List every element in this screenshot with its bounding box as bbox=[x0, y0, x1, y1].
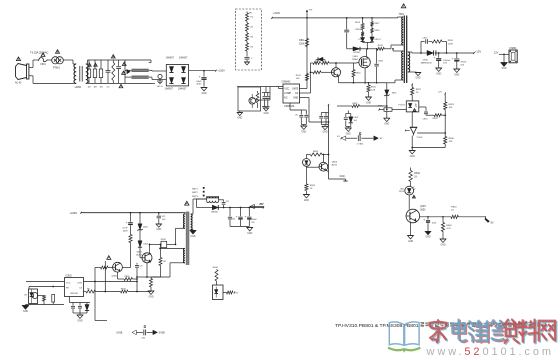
Q804 base wire bbox=[140, 257, 142, 259]
svg-text:R830: R830 bbox=[449, 138, 455, 140]
svg-text:GND: GND bbox=[156, 229, 161, 231]
watermark character xiu bbox=[485, 320, 504, 343]
TL431 U803 bbox=[405, 127, 423, 139]
arrow connector left bbox=[132, 330, 143, 335]
bridge diode D804 bbox=[181, 78, 185, 84]
T802 secondary winding bbox=[191, 214, 192, 230]
divider resistor R808 bbox=[244, 31, 249, 41]
R817 labels bbox=[375, 23, 382, 41]
T802 primary winding bbox=[184, 213, 186, 229]
gate resistor R813 bbox=[322, 62, 357, 65]
svg-text:Q803: Q803 bbox=[332, 162, 338, 164]
svg-text:R819: R819 bbox=[378, 45, 384, 47]
secondary bottom wire bbox=[191, 230, 193, 231]
svg-text:D811: D811 bbox=[143, 244, 149, 246]
startup resistor R831 bbox=[129, 235, 132, 268]
watermark character wang bbox=[539, 321, 557, 342]
svg-text:1M: 1M bbox=[87, 87, 90, 89]
primary lower pin wire bbox=[391, 45, 398, 49]
output gnd bus bbox=[230, 225, 249, 227]
svg-text:GND: GND bbox=[201, 93, 206, 95]
CY arrow left bbox=[341, 136, 357, 141]
svg-text:Z802: Z802 bbox=[143, 226, 149, 228]
label 1N4007 c bbox=[165, 87, 174, 90]
svg-text:CR6842S: CR6842S bbox=[284, 105, 295, 108]
ground secondary bbox=[415, 73, 421, 80]
svg-text:C810: C810 bbox=[423, 38, 429, 40]
svg-text:C813: C813 bbox=[423, 119, 429, 121]
Q803 emitter wire bbox=[326, 170, 329, 171]
zener Z801 bbox=[384, 83, 397, 111]
svg-text:GND: GND bbox=[410, 156, 415, 158]
photo LED D809 bbox=[299, 159, 311, 172]
svg-text:GND: GND bbox=[440, 244, 445, 246]
svg-text:R842: R842 bbox=[414, 173, 420, 175]
optocoupler U806 bbox=[210, 285, 223, 303]
svg-text:400V: 400V bbox=[196, 83, 202, 85]
connector capacitor C820 bbox=[141, 326, 146, 340]
U804 drive resistor R837 bbox=[84, 288, 152, 293]
ground under R843 bbox=[440, 239, 446, 246]
startup resistor R811 bbox=[305, 39, 308, 47]
Q805 base resistor R838 bbox=[95, 266, 113, 269]
svg-text:10K: 10K bbox=[449, 141, 453, 143]
svg-text:R840: R840 bbox=[213, 267, 219, 269]
ground under U804 caps bbox=[77, 313, 83, 322]
startup line from HV rail bbox=[306, 10, 313, 89]
pullup resistor R842 bbox=[409, 168, 421, 187]
ground under Q807 bbox=[408, 236, 414, 243]
svg-text:COMP: COMP bbox=[284, 93, 291, 95]
ground under C821 bbox=[425, 232, 431, 239]
C805 labels rotated bbox=[338, 34, 344, 41]
C807 labels bbox=[354, 117, 360, 122]
feedback resistor R828 bbox=[426, 114, 445, 121]
svg-text:FR107: FR107 bbox=[375, 39, 382, 41]
feedback bottom wire bbox=[411, 136, 445, 151]
fb resistor R836 bbox=[29, 286, 65, 305]
svg-text:+: + bbox=[245, 214, 247, 218]
cs filter resistor R822 bbox=[337, 103, 388, 108]
warning triangle under opto bbox=[413, 109, 416, 112]
svg-text:GND: GND bbox=[23, 311, 28, 313]
damping resistor R819 bbox=[377, 45, 391, 50]
warning triangle mid b bbox=[122, 71, 126, 74]
decoupling caps C808 C809 bbox=[319, 113, 328, 125]
bias resistor R824 bbox=[305, 167, 316, 194]
ground under C811 bbox=[436, 68, 442, 75]
ground under C808 bbox=[322, 125, 328, 134]
svg-text:400V: 400V bbox=[123, 231, 128, 233]
5V rail bbox=[229, 206, 264, 208]
ground under TL431 bbox=[409, 151, 415, 158]
discharge resistor R804 bbox=[99, 60, 102, 89]
svg-text:+: + bbox=[423, 218, 425, 222]
series resistor R844 bbox=[451, 207, 486, 219]
X-capacitor CX801 bbox=[106, 60, 111, 89]
standby transistor Q806 bbox=[113, 262, 123, 272]
svg-text:R829: R829 bbox=[449, 104, 455, 106]
snubber bottom tie bbox=[363, 42, 372, 49]
svg-text:+: + bbox=[126, 220, 128, 224]
svg-text:5V: 5V bbox=[491, 221, 494, 224]
ground under C812 bbox=[454, 69, 460, 76]
svg-text:Q807: Q807 bbox=[420, 206, 426, 208]
U804 label top bbox=[66, 275, 73, 277]
title text cjk smudge bbox=[421, 322, 547, 328]
clamp diode D811 bbox=[138, 241, 149, 258]
wire plug to fuse bbox=[33, 60, 39, 68]
arrow connector right bbox=[147, 330, 166, 335]
X-capacitor CX802 bbox=[116, 60, 121, 83]
svg-text:12V: 12V bbox=[494, 51, 499, 54]
Q801 labels bbox=[352, 56, 359, 61]
secondary bottom pin wire bbox=[408, 71, 418, 74]
ground under zener bbox=[384, 112, 390, 126]
svg-text:GND: GND bbox=[322, 132, 327, 134]
12V wire to connector bbox=[494, 51, 509, 55]
svg-text:16V: 16V bbox=[443, 63, 447, 65]
svg-text:R826: R826 bbox=[448, 40, 454, 42]
emitter resistor R839 bbox=[124, 276, 137, 281]
svg-text:C806: C806 bbox=[378, 61, 384, 63]
watermark character zi bbox=[503, 320, 520, 344]
gate pin labels bbox=[296, 75, 302, 80]
svg-text:MB71: MB71 bbox=[192, 188, 198, 190]
svg-text:10K: 10K bbox=[296, 78, 300, 80]
watermark character wei bbox=[469, 321, 488, 343]
out cap C817 bbox=[228, 208, 236, 227]
svg-text:CY801: CY801 bbox=[357, 143, 364, 145]
secondary snubber riser bbox=[420, 42, 422, 54]
Q807 labels bbox=[420, 206, 426, 211]
T801 core bbox=[404, 16, 406, 84]
svg-text:R832: R832 bbox=[161, 239, 167, 241]
warning triangle over T801 bbox=[401, 4, 406, 8]
Q802 emitter wire bbox=[338, 76, 340, 83]
svg-text:GND: GND bbox=[293, 97, 298, 99]
wire filter bottom rail bbox=[86, 82, 152, 84]
U806 output resistor R841 bbox=[223, 291, 239, 294]
CY arrow right bbox=[361, 136, 383, 141]
startup box outline bbox=[238, 87, 261, 111]
svg-text:LED: LED bbox=[400, 188, 405, 190]
wire U801 pin gate riser bbox=[300, 63, 312, 93]
svg-text:+310V: +310V bbox=[70, 211, 78, 215]
svg-text:330uF: 330uF bbox=[251, 219, 257, 221]
svg-text:R827: R827 bbox=[416, 89, 422, 91]
Q804 labels bbox=[136, 252, 143, 257]
ground under sense resistor bbox=[366, 97, 372, 104]
watermark character jia bbox=[430, 320, 448, 343]
gate entry wire bbox=[357, 61, 359, 64]
svg-text:+310V: +310V bbox=[273, 12, 281, 15]
ground in dashed box bbox=[244, 60, 249, 65]
wire choke2 top left bbox=[125, 69, 132, 71]
primary winding2 top pin wire bbox=[392, 48, 398, 51]
discharge resistor R802 bbox=[87, 60, 90, 89]
discharge resistor R803 bbox=[93, 60, 96, 89]
svg-text:GND: GND bbox=[384, 123, 389, 125]
B+ rail bbox=[81, 212, 185, 214]
dashed box bbox=[236, 9, 262, 70]
feedback resistor R823 bbox=[310, 151, 328, 156]
svg-text:RS1M: RS1M bbox=[354, 52, 360, 54]
svg-text:VCC: VCC bbox=[284, 88, 289, 90]
svg-text:Q805: Q805 bbox=[112, 276, 118, 278]
filter cap C816 bbox=[218, 200, 230, 209]
svg-text:GND: GND bbox=[340, 176, 345, 178]
wire fuse to varistor bbox=[48, 59, 52, 61]
U801 vcc caps bbox=[290, 103, 308, 125]
+5VSB label bbox=[259, 203, 264, 206]
divider resistor R806 bbox=[244, 13, 249, 21]
U801 part number bottom bbox=[284, 105, 295, 108]
divider labels right bbox=[251, 17, 254, 49]
svg-text:4.7K: 4.7K bbox=[446, 228, 451, 230]
svg-text:R839: R839 bbox=[125, 276, 131, 278]
svg-text:A5V: A5V bbox=[260, 203, 265, 206]
svg-text:R824: R824 bbox=[310, 185, 316, 187]
rectifier diode D812 bbox=[197, 205, 219, 213]
svg-text:+: + bbox=[236, 214, 238, 218]
lower divider resistor R830 bbox=[444, 133, 455, 148]
divider capacitor C802 bbox=[245, 51, 254, 60]
svg-text:IC802: IC802 bbox=[66, 275, 73, 277]
HV rail top bbox=[271, 17, 397, 19]
opto pullup resistor R840 bbox=[213, 267, 219, 285]
svg-text:CN801: CN801 bbox=[509, 48, 517, 50]
warning triangle below CX802 bbox=[119, 84, 123, 87]
snubber diode D807 bbox=[370, 37, 374, 42]
connector CN801 bbox=[509, 48, 517, 63]
svg-text:R844: R844 bbox=[451, 207, 457, 209]
svg-text:GND: GND bbox=[77, 320, 82, 322]
pulldown resistor R843 bbox=[441, 217, 452, 239]
wire U801 pin1 bbox=[279, 87, 284, 89]
aux bottom wire bbox=[151, 263, 185, 277]
drive resistor R832 bbox=[150, 239, 167, 247]
svg-text:GND: GND bbox=[148, 296, 153, 298]
D810 labels bbox=[421, 59, 433, 64]
svg-text:+12V: +12V bbox=[475, 49, 482, 53]
wire opto to U804 pin1 bbox=[26, 282, 65, 290]
output choke L801 bbox=[207, 196, 219, 202]
warning triangle LED bbox=[412, 195, 415, 198]
U801 pin labels bbox=[284, 87, 298, 99]
svg-text:VCC: VCC bbox=[66, 282, 71, 284]
svg-text:1M: 1M bbox=[99, 87, 102, 89]
svg-text:GND: GND bbox=[366, 102, 371, 104]
opto bias resistor R835 bbox=[38, 296, 46, 305]
svg-text:OB2269: OB2269 bbox=[70, 293, 79, 295]
U804 pin text bbox=[66, 282, 83, 295]
wire plug bottom rail bbox=[33, 76, 76, 84]
ground under startup caps bbox=[263, 107, 269, 115]
drain node wire bbox=[347, 48, 353, 50]
bridge output wire bbox=[189, 70, 217, 72]
Q802 collector wire bbox=[335, 63, 337, 68]
snubber diode D806 bbox=[361, 38, 365, 43]
U804 right pin1 wire bbox=[84, 268, 138, 321]
R811 labels bbox=[299, 40, 305, 45]
fuse F801 bbox=[39, 58, 48, 66]
wire earth stub bbox=[155, 82, 160, 84]
T801 label bbox=[399, 13, 405, 16]
bias line down bbox=[104, 261, 106, 292]
ground under R834 bbox=[148, 291, 154, 298]
ground under output caps bbox=[247, 226, 253, 234]
svg-text:MB72: MB72 bbox=[192, 192, 198, 194]
watermark book icon bbox=[388, 322, 420, 351]
startup box vertical label bbox=[241, 95, 243, 104]
wire rail jog right bottom bbox=[152, 82, 155, 84]
svg-text:R817: R817 bbox=[375, 23, 381, 25]
ground under R824 bbox=[303, 195, 309, 202]
+12V label bbox=[475, 49, 482, 53]
svg-text:TL431: TL431 bbox=[416, 137, 423, 139]
output capacitor C811 bbox=[434, 53, 452, 68]
opto transistor side wire bbox=[419, 106, 426, 108]
svg-text:R820: R820 bbox=[356, 73, 362, 75]
standby gnd bus bbox=[26, 304, 65, 306]
svg-text:T3.15A 250VAC: T3.15A 250VAC bbox=[30, 51, 49, 55]
PWM controller U801 box bbox=[283, 84, 300, 103]
svg-text:GND: GND bbox=[237, 117, 242, 119]
svg-text:MB73: MB73 bbox=[192, 196, 198, 198]
choke right drop bbox=[219, 196, 220, 207]
snubber column C805 bbox=[344, 18, 349, 49]
Q803 base wire bbox=[306, 165, 319, 168]
svg-text:GND: GND bbox=[454, 74, 459, 76]
gate bleed resistor R820 bbox=[352, 63, 361, 83]
watermark character liao bbox=[519, 320, 538, 344]
svg-text:Q804: Q804 bbox=[136, 252, 142, 254]
delay capacitor C821 bbox=[423, 217, 437, 232]
svg-text:GND: GND bbox=[190, 236, 195, 238]
bridge diode D801 bbox=[169, 67, 173, 73]
snubber capacitor C810 bbox=[421, 38, 432, 44]
watermark character dian bbox=[452, 320, 467, 343]
Q804 emitter wire bbox=[146, 263, 148, 278]
svg-text:R823: R823 bbox=[313, 151, 319, 153]
standby PWM IC U804 box bbox=[65, 278, 84, 297]
svg-text:HV: HV bbox=[249, 12, 253, 14]
svg-text:1M: 1M bbox=[93, 87, 96, 89]
wire choke2 bottom left bbox=[125, 76, 132, 78]
optocoupler U802 bbox=[398, 101, 418, 112]
clamp diode D808 bbox=[353, 47, 367, 55]
damper resistor R845 bbox=[151, 244, 167, 277]
svg-text:R828: R828 bbox=[433, 118, 439, 120]
svg-text:LF801: LF801 bbox=[75, 87, 82, 89]
wire U801 cs pin bbox=[300, 98, 329, 123]
out cap C819 bbox=[245, 208, 258, 227]
svg-text:R837: R837 bbox=[121, 288, 127, 290]
bridge diode D803 bbox=[169, 78, 173, 84]
wire LED top bbox=[306, 155, 310, 159]
svg-text:470uF: 470uF bbox=[460, 62, 467, 64]
warning triangle over R805 bbox=[111, 55, 115, 58]
line mid filter bbox=[124, 60, 126, 83]
wire to gnd pad bbox=[329, 176, 348, 181]
net tick E1 bbox=[337, 136, 342, 139]
svg-text:R816: R816 bbox=[356, 29, 362, 31]
wire choke2 to bridge bottom bbox=[149, 77, 167, 79]
drain wire to transformer bbox=[367, 48, 378, 50]
drive wire bbox=[167, 244, 177, 246]
Q807 emitter wire bbox=[410, 222, 412, 236]
svg-text:AC-G: AC-G bbox=[157, 85, 163, 88]
Q803 labels bbox=[332, 162, 338, 167]
svg-text:100R: 100R bbox=[448, 43, 453, 45]
svg-text:PC817: PC817 bbox=[398, 104, 405, 106]
svg-text:+: + bbox=[434, 56, 436, 60]
title text latin bbox=[335, 323, 419, 328]
svg-text:CS: CS bbox=[295, 93, 299, 95]
R826 labels bbox=[448, 40, 454, 45]
svg-text:R821: R821 bbox=[371, 87, 377, 89]
source bus bbox=[339, 82, 387, 84]
Q806 emitter wire bbox=[118, 272, 125, 279]
warning triangle over fuse bbox=[41, 53, 45, 56]
svg-text:SB360: SB360 bbox=[211, 211, 218, 213]
Q801 drain wire bbox=[366, 49, 368, 57]
svg-text:8550: 8550 bbox=[420, 209, 426, 211]
svg-text:NC: NC bbox=[284, 97, 288, 99]
gate pulldown transistor Q802 bbox=[331, 68, 340, 77]
U804 bottom components bbox=[70, 297, 91, 314]
svg-text:10K: 10K bbox=[449, 107, 453, 109]
Q802 base resistor R814 bbox=[311, 71, 332, 74]
svg-text:R843: R843 bbox=[446, 225, 452, 227]
wire rail jog right top bbox=[149, 60, 151, 63]
transistor Q803 bbox=[319, 162, 328, 171]
svg-text:R822: R822 bbox=[353, 103, 359, 105]
opto cathode wire bbox=[411, 112, 413, 127]
feedback mid wire bbox=[417, 132, 446, 134]
svg-text:RT801: RT801 bbox=[53, 67, 61, 69]
svg-text:1N4007: 1N4007 bbox=[166, 56, 175, 59]
warning triangle mid a bbox=[122, 62, 126, 65]
safety resistor R805 bbox=[112, 60, 115, 83]
svg-text:GND: GND bbox=[346, 133, 351, 135]
secondary top pin wire bbox=[408, 52, 421, 53]
bridge diode D802 bbox=[181, 67, 185, 73]
T802 core bbox=[186, 212, 189, 266]
gate diode D805 bbox=[316, 57, 325, 63]
warning triangle over plug bbox=[16, 57, 20, 61]
T801 secondary winding bbox=[408, 52, 410, 72]
wire C814 to Q804 bbox=[122, 267, 130, 269]
ground under C815 bbox=[156, 224, 162, 231]
winding spec text rows bbox=[192, 187, 204, 198]
divider resistor R809 bbox=[244, 41, 249, 51]
svg-text:DRV: DRV bbox=[78, 282, 83, 284]
svg-text:150K: 150K bbox=[299, 43, 305, 45]
svg-text:GND: GND bbox=[301, 131, 306, 133]
output capacitor C812 bbox=[452, 53, 467, 69]
U801 part number top bbox=[282, 81, 291, 84]
svg-text:R818: R818 bbox=[375, 30, 381, 32]
svg-text:D813: D813 bbox=[399, 191, 405, 193]
wire varistor to choke bbox=[63, 60, 76, 64]
R815 labels bbox=[355, 22, 362, 41]
svg-text:5VSB: 5VSB bbox=[116, 332, 122, 334]
MOSFET Q801 bbox=[359, 57, 370, 68]
startup resistor R811b bbox=[305, 74, 308, 81]
snubber resistor R826 bbox=[432, 40, 447, 54]
